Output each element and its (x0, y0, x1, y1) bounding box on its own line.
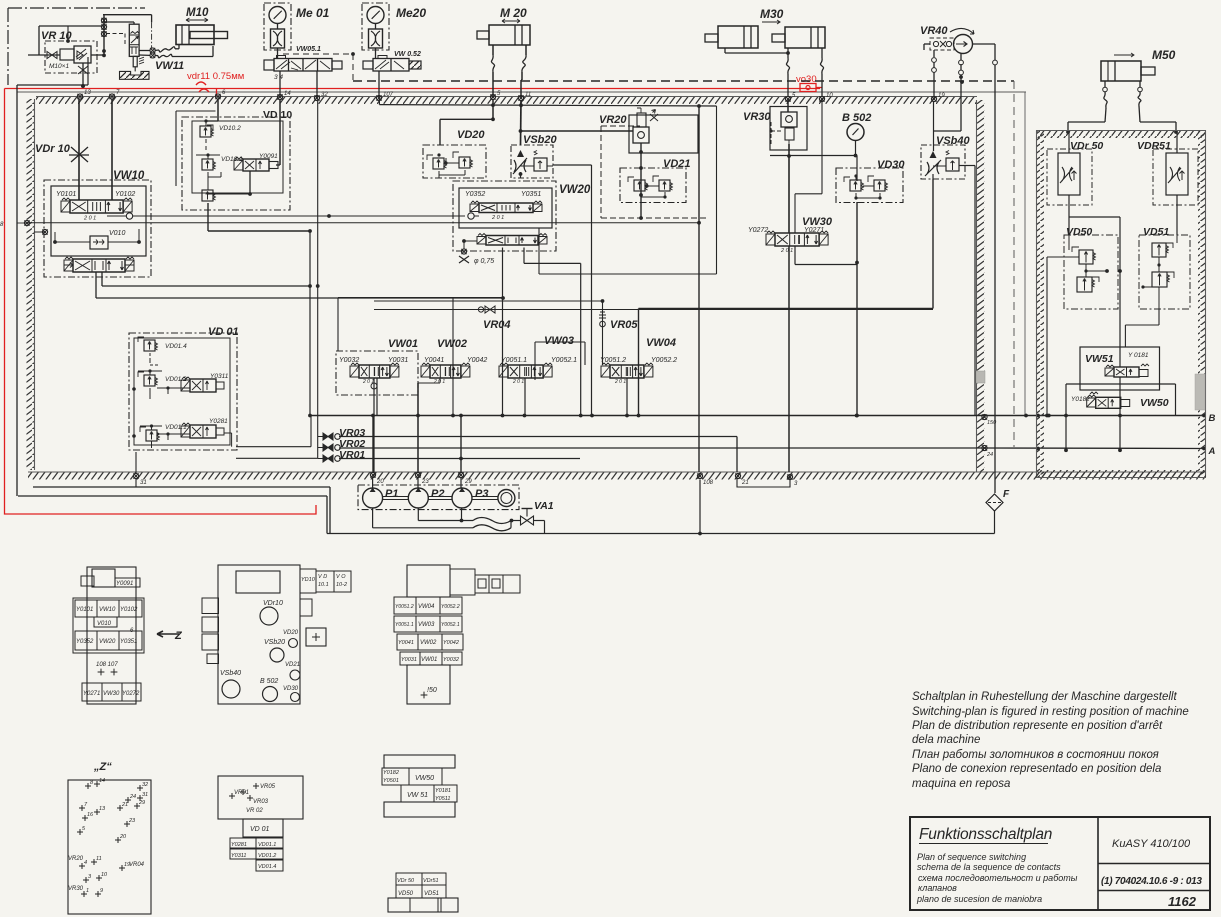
svg-text:VD 10: VD 10 (263, 109, 292, 121)
check unit VR40 (930, 38, 954, 50)
pump VR40 (950, 28, 974, 53)
connector panel VW50 VW51 (382, 755, 457, 817)
gauge assembly Me01 (264, 3, 291, 59)
svg-text:M30: M30 (760, 7, 784, 21)
wire VR20 frame right (539, 106, 717, 274)
svg-text:VR05: VR05 (610, 319, 638, 331)
pump shaft lines (383, 497, 498, 500)
svg-text:VR20: VR20 (599, 114, 627, 126)
svg-text:24: 24 (986, 452, 993, 458)
drain line to filter (327, 521, 995, 536)
pilot dash VW11 (106, 22, 152, 48)
svg-text:VR30: VR30 (68, 886, 84, 892)
svg-text:B: B (1209, 413, 1216, 424)
wire VR03 (339, 437, 737, 473)
svg-text:VD01.4: VD01.4 (258, 864, 276, 870)
wire VR20 down to node 108 (697, 106, 701, 472)
gauge port symbol on VW10 (107, 213, 133, 219)
svg-text:32: 32 (321, 92, 328, 98)
pilot dashed vertical right (1013, 81, 1015, 447)
svg-text:VD30: VD30 (283, 686, 299, 692)
block VD50 boundary (1064, 235, 1118, 309)
svg-text:VW11: VW11 (155, 60, 184, 72)
svg-text:Y0051.2: Y0051.2 (395, 604, 414, 610)
detail view Z panel (68, 778, 151, 914)
svg-text:B 502: B 502 (260, 678, 278, 685)
svg-text:VD21: VD21 (285, 662, 300, 668)
svg-text:19: 19 (938, 93, 945, 99)
block VD30 boundary (836, 168, 903, 203)
svg-text:150: 150 (987, 420, 997, 426)
svg-text:Y0052.1: Y0052.1 (441, 622, 460, 628)
wires below VW30 (789, 246, 857, 472)
svg-text:YD10: YD10 (301, 577, 316, 583)
main valve VW30 (766, 231, 828, 254)
wire VR20 down to VD21 (639, 143, 643, 220)
valve VW04 (601, 363, 653, 385)
cylinder M20 label (500, 6, 527, 23)
svg-text:VD 01: VD 01 (250, 826, 270, 833)
bus wire y298 top (338, 298, 604, 352)
drain return line bottom-left (18, 487, 330, 534)
bus line 8 left (0, 220, 30, 228)
riser to node 29 (460, 416, 462, 473)
svg-text:VW03: VW03 (418, 622, 435, 628)
wire VR40 check to node 19 (924, 44, 936, 96)
wire VW05.1 to node 32 (316, 71, 318, 97)
connector panel VD01 (218, 776, 303, 871)
svg-text:Y0272: Y0272 (748, 227, 768, 234)
suction hoses (473, 518, 521, 531)
svg-text:KuASY 410/100: KuASY 410/100 (1112, 838, 1191, 850)
svg-text:VW01: VW01 (421, 657, 437, 663)
svg-text:M 20: M 20 (500, 6, 527, 20)
svg-text:Y0102: Y0102 (120, 607, 138, 613)
node 13 (77, 90, 91, 99)
node 20 (370, 472, 384, 485)
right group right hatched boundary (1198, 131, 1206, 478)
wire node7 down to VW10 (111, 99, 113, 200)
block VW20 boundary (453, 181, 556, 251)
block VW50 boundary (1066, 384, 1176, 450)
svg-text:108: 108 (703, 480, 714, 486)
check valve VR01 (318, 455, 341, 462)
svg-text:P1: P1 (385, 488, 398, 500)
svg-text:VDR51: VDR51 (1137, 140, 1171, 152)
svg-text:VD01.1: VD01.1 (258, 842, 276, 848)
svg-text:VR01: VR01 (339, 449, 365, 461)
node 14 (277, 91, 291, 100)
svg-text:108 107: 108 107 (96, 662, 118, 668)
red vertical tick at node 6 (216, 89, 218, 97)
lower valve VW10 (64, 257, 134, 272)
svg-text:plano de sucesion de maniobra: plano de sucesion de maniobra (916, 894, 1042, 904)
svg-text:24: 24 (129, 794, 136, 800)
valve VW11 (129, 22, 144, 67)
wire node5 M20 into VD20 (440, 99, 495, 145)
wire VD30 down (855, 202, 859, 417)
svg-text:Y0032: Y0032 (339, 357, 359, 364)
svg-text:VD20: VD20 (457, 129, 485, 141)
svg-text:schema de la sequence de conta: schema de la sequence de contacts (917, 862, 1061, 872)
relief valve VD10.2 (200, 119, 241, 152)
svg-text:VW02: VW02 (420, 640, 437, 646)
hoses VW11 to M10 (155, 45, 214, 58)
valve VR30 (769, 107, 807, 151)
svg-text:16: 16 (87, 812, 94, 818)
svg-text:F: F (1003, 489, 1010, 500)
junctions on bus B (371, 414, 1206, 426)
svg-text:B 502: B 502 (842, 112, 871, 124)
svg-text:„Z“: „Z“ (93, 761, 112, 773)
wire VR01 (339, 457, 580, 461)
svg-text:dela machine: dela machine (912, 734, 980, 746)
svg-text:VD01.2: VD01.2 (258, 853, 276, 859)
node 6 (215, 90, 226, 99)
svg-text:2 0 1: 2 0 1 (780, 248, 793, 254)
svg-text:VW 0.52: VW 0.52 (394, 51, 421, 58)
VW11 exhaust pad (120, 67, 150, 80)
check valve VR03 (318, 433, 341, 440)
block VD20 boundary (423, 145, 486, 178)
svg-text:Y0271: Y0271 (83, 691, 100, 697)
svg-text:Y0091: Y0091 (116, 581, 133, 587)
svg-text:Y0102: Y0102 (115, 191, 135, 198)
svg-text:Y0352: Y0352 (465, 191, 485, 198)
svg-text:VR 02: VR 02 (246, 808, 263, 814)
svg-text:VD50: VD50 (398, 891, 414, 897)
svg-text:Y0042: Y0042 (443, 640, 459, 646)
wire VSb20 to VR20 (519, 129, 633, 133)
wire node11 down VSb20 (520, 100, 523, 145)
svg-text:VR40: VR40 (920, 25, 948, 37)
block VD01 boundary (129, 333, 237, 450)
connector panel VW04 stack (394, 565, 520, 704)
relief valve VD01.2 (138, 369, 187, 386)
svg-text:14: 14 (284, 91, 291, 97)
suction lines to tank (373, 508, 473, 528)
svg-text:VW50: VW50 (1140, 397, 1169, 409)
red boundary line vdr11 (5, 89, 821, 515)
svg-text:VDr51: VDr51 (423, 878, 439, 884)
gray bus corner right (960, 80, 1025, 415)
node 10 (819, 93, 833, 102)
check valve VR10 (28, 41, 104, 73)
svg-text:Y0052.1: Y0052.1 (551, 357, 577, 364)
VD21 internal wires (641, 192, 667, 199)
svg-text:Plano de conexion representado: Plano de conexion representado en positi… (912, 763, 1161, 775)
gauge port symbol on VW20 (468, 213, 479, 219)
relief valve VD20.1 (427, 153, 447, 169)
svg-text:Y0051.1: Y0051.1 (501, 357, 527, 364)
pump P2 (408, 478, 428, 508)
svg-text:1162: 1162 (1168, 894, 1197, 909)
riser x453 (452, 298, 454, 416)
svg-text:10: 10 (101, 872, 108, 878)
svg-text:P2: P2 (431, 488, 444, 500)
VD10 internal wires (208, 171, 252, 196)
throttle check VDR51 (1153, 131, 1198, 235)
svg-text:Y0041: Y0041 (398, 640, 414, 646)
red break squiggles (196, 82, 209, 92)
svg-text:План работы золотников в состо: План работы золотников в состоянии покоя (912, 749, 1159, 761)
note text block (912, 691, 1189, 790)
svg-text:Y0052.2: Y0052.2 (651, 357, 677, 364)
wire to lower valve VW20 (462, 239, 477, 249)
svg-text:31: 31 (140, 480, 147, 486)
lower valve VW20 (477, 234, 547, 246)
wire feed x176 (176, 111, 216, 186)
main valve VW20 upper (470, 201, 542, 221)
svg-text:32: 32 (142, 782, 148, 788)
svg-text:29: 29 (464, 479, 472, 485)
svg-text:2 0 1: 2 0 1 (614, 379, 626, 385)
check valve VR05 (599, 301, 606, 365)
connector panel VD50 VD51 (388, 873, 458, 912)
wire node10 pilot (795, 99, 822, 233)
svg-text:Y0031: Y0031 (401, 657, 417, 663)
svg-text:1: 1 (86, 888, 89, 894)
svg-text:VSb20: VSb20 (523, 134, 558, 146)
svg-text:VR03: VR03 (253, 799, 269, 805)
svg-text:VSb40: VSb40 (220, 670, 241, 677)
gray patch on right group boundary (1195, 374, 1205, 410)
svg-text:Y0511: Y0511 (435, 796, 451, 802)
wire VW03 down (524, 378, 526, 416)
gray patch on right boundary (976, 371, 985, 383)
svg-text:29: 29 (138, 800, 145, 806)
svg-text:Y0042: Y0042 (467, 357, 487, 364)
relief valve VD01.1 (140, 424, 187, 441)
svg-text:Y0311: Y0311 (231, 853, 247, 859)
svg-text:Y0101: Y0101 (56, 191, 76, 198)
connector panel VW10 stack (73, 567, 144, 704)
wire VSb40 down and left (639, 179, 934, 416)
block VW10 boundary (44, 180, 151, 277)
valve VW50 (1087, 392, 1130, 408)
valve VW01 (350, 363, 399, 385)
cylinder M50 (1101, 61, 1155, 81)
svg-text:VW04: VW04 (418, 604, 435, 610)
svg-text:23: 23 (421, 479, 429, 485)
wire VD10 output down (208, 203, 312, 233)
right group left hatched boundary (1036, 131, 1044, 478)
junction dot y216 (327, 214, 331, 218)
svg-text:2 0 1: 2 0 1 (512, 379, 524, 385)
svg-text:10: 10 (826, 93, 833, 99)
svg-text:Y0032: Y0032 (443, 657, 459, 663)
cylinder M30 label (760, 7, 784, 24)
svg-text:V O: V O (336, 574, 346, 580)
wire VR02 line A (339, 445, 1216, 458)
pilot valve Y0091 (234, 153, 278, 171)
svg-text:Y0041: Y0041 (424, 357, 444, 364)
wire node19 into VSb40 (933, 102, 935, 152)
gauge assembly Me20 (362, 3, 389, 59)
svg-text:vdr11 0.75мм: vdr11 0.75мм (187, 71, 244, 82)
junction nodes at VW11 right (139, 48, 155, 58)
svg-text:VDr 10: VDr 10 (35, 143, 71, 155)
pilot bus below boundary (379, 99, 716, 108)
wire VSb20 right out (553, 165, 592, 416)
node 23 (415, 472, 429, 485)
block VW03 boundary (535, 342, 585, 380)
svg-text:Y0051.1: Y0051.1 (395, 622, 414, 628)
svg-text:VW02: VW02 (437, 338, 467, 350)
right group top hatched boundary (1036, 131, 1206, 139)
wire node14 into VD10 (276, 99, 280, 165)
svg-text:VR05: VR05 (260, 784, 276, 790)
svg-text:VD20: VD20 (283, 630, 299, 636)
check valve VR04 (374, 306, 933, 313)
svg-text:20: 20 (376, 479, 384, 485)
junction nodes column x104 (66, 18, 107, 57)
riser node108 to drain (699, 480, 701, 534)
right group bottom hatched boundary (1036, 470, 1206, 478)
cylinder M30 right (772, 27, 825, 48)
gauge port below VW01 (371, 378, 377, 472)
relief valve VD21.2 (645, 176, 672, 191)
svg-text:V010: V010 (97, 621, 112, 627)
svg-text:VDr 50: VDr 50 (1070, 140, 1103, 152)
riser to node 20 (373, 378, 377, 472)
svg-text:Y0501: Y0501 (383, 778, 399, 784)
svg-text:31: 31 (142, 792, 148, 798)
valve VW51 (1105, 364, 1149, 377)
view arrow Z (157, 630, 183, 642)
svg-text:VD51: VD51 (424, 891, 439, 897)
svg-text:Switching-plan is figured in r: Switching-plan is figured in resting pos… (912, 706, 1189, 718)
svg-text:M10×1: M10×1 (49, 63, 69, 70)
svg-text:Y0182: Y0182 (1071, 396, 1090, 403)
svg-text:VW20: VW20 (99, 639, 116, 645)
svg-text:Y0281: Y0281 (209, 418, 228, 425)
svg-text:Y0031: Y0031 (388, 357, 408, 364)
svg-text:Y0281: Y0281 (231, 842, 247, 848)
cylinder M10 (176, 25, 228, 45)
svg-text:2 0 1: 2 0 1 (362, 379, 374, 385)
wires M20 to nodes 5 and 11 (491, 45, 526, 97)
valve bank VW05.1 (264, 56, 342, 72)
check valve VR02 (318, 444, 341, 451)
svg-text:Plan of sequence switching: Plan of sequence switching (917, 852, 1026, 862)
svg-text:VD 01: VD 01 (208, 326, 239, 338)
cylinder M20 (477, 25, 530, 45)
manifold block top view (202, 565, 351, 704)
valve VW02 (421, 363, 470, 385)
title block frame (910, 817, 1210, 910)
svg-text:схема последовотельност и рабо: схема последовотельност и работы (918, 873, 1078, 883)
svg-text:VD01.1: VD01.1 (165, 424, 187, 431)
svg-text:11: 11 (525, 92, 531, 98)
cylinder M50 label (1114, 48, 1176, 62)
svg-text:VW50: VW50 (415, 775, 434, 782)
svg-text:Me20: Me20 (396, 6, 426, 20)
wire pump to filter line (972, 44, 997, 493)
svg-text:VD30: VD30 (877, 159, 905, 171)
relief valve VD20.2 (444, 152, 472, 168)
block VW01 boundary (336, 351, 418, 395)
block VD21 boundary (620, 168, 686, 203)
svg-text:Schaltplan in Ruhestellung der: Schaltplan in Ruhestellung der Maschine … (912, 691, 1177, 703)
wires VW50 VW51 (1047, 377, 1122, 452)
VD50 internal wires (1047, 235, 1109, 277)
node 11 (518, 92, 531, 101)
node 29 (458, 472, 472, 485)
svg-text:VW30: VW30 (103, 691, 120, 697)
svg-text:VD01.4: VD01.4 (165, 343, 187, 350)
svg-text:9: 9 (100, 888, 103, 894)
svg-text:21: 21 (741, 480, 749, 486)
pump coupling (498, 490, 515, 507)
riser VD51 to VW51 (1125, 309, 1159, 347)
relief valve VD51.1 (1152, 243, 1173, 257)
wires VD01.1 row (132, 432, 231, 448)
svg-text:VW04: VW04 (646, 337, 676, 349)
svg-text:Me 01: Me 01 (296, 6, 330, 20)
svg-text:11: 11 (96, 856, 102, 862)
shutoff valve VA1 (521, 509, 534, 526)
svg-text:Y0182: Y0182 (383, 770, 399, 776)
brake valve VSb20 (511, 145, 553, 178)
machine frame left hatched boundary (27, 99, 35, 470)
cylinder M10 label (186, 7, 209, 22)
left riser to VR rows (308, 99, 320, 459)
wire Me01 valve to node 14 (279, 71, 281, 96)
block VW51 boundary (1080, 347, 1160, 390)
svg-text:VR30: VR30 (743, 111, 771, 123)
svg-text:VW51: VW51 (1085, 353, 1114, 365)
svg-text:VW10: VW10 (99, 607, 116, 613)
svg-text:VDr 50: VDr 50 (397, 878, 415, 884)
svg-text:Y0052.2: Y0052.2 (441, 604, 460, 610)
svg-text:(1) 704024.10.6 -9 : 013: (1) 704024.10.6 -9 : 013 (1101, 876, 1202, 887)
wire node13 down to VW10 (78, 99, 80, 200)
machine frame bottom hatched boundary (28, 472, 1206, 480)
shuttle valve V010 (90, 236, 108, 249)
svg-text:Y0352: Y0352 (76, 639, 94, 645)
machine frame top hatched boundary (17, 92, 1026, 104)
svg-text:Z: Z (174, 630, 183, 642)
wire through shuttle valve (53, 229, 141, 244)
filter F (986, 494, 1003, 534)
svg-text:VW01: VW01 (388, 338, 418, 350)
svg-text:φ 0,75: φ 0,75 (474, 258, 494, 265)
node 32 (314, 92, 328, 101)
svg-text:Plan de distribution represent: Plan de distribution represente en posit… (912, 720, 1163, 732)
main valve VW10 upper (61, 198, 132, 222)
throttle drain below VR10 (78, 63, 88, 88)
valve VR20 (629, 108, 698, 153)
VD51 internal wires (1141, 235, 1177, 309)
wire node5 through VR30 (787, 99, 791, 233)
svg-text:A: A (1208, 446, 1216, 457)
svg-text:10-2: 10-2 (336, 582, 347, 588)
wire VW02 down (418, 378, 440, 472)
node 21 (735, 473, 748, 486)
wires below VW10 (96, 272, 505, 300)
relief valve VD01.4 (138, 337, 187, 365)
pilot valve Y0281 (181, 418, 228, 438)
svg-text:VR 10: VR 10 (41, 30, 72, 42)
wires M30 cylinders (725, 48, 824, 96)
relief valve VD50.2 (1077, 277, 1099, 292)
red component box vo30 (800, 84, 822, 92)
title small lines (916, 852, 1078, 904)
wire pump bottom (934, 53, 963, 131)
svg-text:2 0 1: 2 0 1 (83, 216, 96, 222)
svg-text:VR01: VR01 (234, 790, 249, 796)
